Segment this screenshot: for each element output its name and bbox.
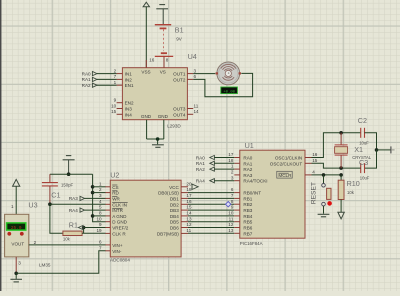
svg-text:8: 8 (99, 211, 102, 216)
wire RA3 to WR (85, 197, 106, 199)
junction MCLR-R10 (339, 173, 343, 177)
svg-text:17: 17 (186, 193, 192, 198)
svg-text:RA4: RA4 (69, 208, 78, 213)
svg-text:OUT4: OUT4 (173, 112, 186, 117)
U4 right pins OUT1-OUT4 (173, 68, 199, 117)
svg-text:5: 5 (99, 205, 102, 210)
node RA2 (terminal at U4 EN1) (82, 83, 97, 88)
svg-text:U3: U3 (28, 201, 37, 210)
svg-text:ADC0804: ADC0804 (110, 258, 130, 263)
svg-text:R10: R10 (347, 179, 360, 188)
svg-text:3: 3 (231, 175, 234, 180)
svg-text:L293D: L293D (167, 124, 181, 129)
U2 right pins VCC DB0-DB7 (157, 181, 192, 236)
svg-text:RA1: RA1 (196, 161, 205, 166)
svg-text:DB3: DB3 (170, 208, 179, 213)
svg-text:1: 1 (99, 181, 102, 186)
wire terminal rail down to C3 (365, 150, 377, 168)
svg-text:16: 16 (149, 57, 155, 62)
svg-text:10: 10 (111, 103, 117, 108)
wire button to ground (323, 206, 325, 214)
svg-text:9V: 9V (176, 37, 183, 42)
svg-text:RA2: RA2 (243, 167, 252, 172)
svg-text:11: 11 (186, 228, 191, 233)
junction crystal top (339, 131, 343, 135)
wire R1 right to U2 CLK R (82, 232, 106, 234)
svg-text:6: 6 (231, 187, 234, 192)
svg-text:PIC16F84A: PIC16F84A (240, 241, 263, 246)
svg-text:VSS: VSS (141, 70, 150, 75)
svg-text:10: 10 (96, 216, 102, 221)
svg-text:12: 12 (186, 222, 192, 227)
battery B1 (155, 25, 173, 57)
U1 left pins RA0-RA4 RB0-RB7 (228, 152, 267, 236)
svg-text:4: 4 (99, 199, 102, 204)
wires DB0-DB7 to RB0-RB7 (188, 193, 234, 234)
svg-text:7: 7 (99, 245, 102, 250)
svg-text:VIN+: VIN+ (112, 243, 123, 248)
svg-text:RA3: RA3 (69, 196, 78, 201)
node RA0 (terminal at U1) (196, 155, 215, 160)
wire gnd rail to U2 VIN- (16, 251, 105, 273)
U2 left pins (96, 181, 128, 253)
svg-text:IN2: IN2 (125, 77, 133, 82)
power terminal (up arrow, LM35 pin1) (13, 179, 20, 186)
svg-text:RA1: RA1 (243, 161, 252, 166)
svg-text:9: 9 (231, 205, 234, 210)
svg-text:13: 13 (186, 216, 192, 221)
svg-text:RB6: RB6 (243, 226, 252, 231)
svg-text:14: 14 (194, 109, 200, 114)
svg-text:12: 12 (228, 222, 234, 227)
svg-text:25.0: 25.0 (11, 226, 22, 231)
svg-text:+0.00: +0.00 (223, 90, 235, 94)
svg-text:U1: U1 (245, 141, 254, 150)
wire MCLR to button (323, 175, 325, 184)
svg-text:RA3: RA3 (243, 173, 252, 178)
svg-text:EN2: EN2 (125, 101, 134, 106)
svg-text:3: 3 (99, 193, 102, 198)
svg-text:1: 1 (231, 164, 234, 169)
node RA3 (terminal at U2 WR) (69, 196, 85, 201)
wire CLK IN node down to R1 (50, 204, 63, 233)
wire RA1 to U1 (214, 162, 234, 164)
wire U4 GND pins to ground (147, 120, 164, 145)
wire C2 right to terminal rail (365, 133, 377, 150)
wire LM35 VOUT to U2 VIN+ (29, 244, 106, 246)
svg-text:20: 20 (186, 181, 192, 186)
wire VREF node to U2 pin 9 (84, 227, 106, 229)
svg-text:DB6: DB6 (170, 226, 179, 231)
wire C1 bottom to CLK IN node (49, 186, 51, 204)
svg-text:VCC: VCC (169, 185, 179, 190)
svg-text:11: 11 (229, 216, 234, 221)
wire OSC1 to crystal top rail (312, 133, 361, 158)
svg-text:LM35: LM35 (39, 263, 51, 268)
junction AGND (91, 214, 95, 218)
svg-text:CLK R: CLK R (112, 231, 126, 236)
wire ground to B1 + (162, 9, 164, 25)
wire B1 - to U4 pin 8 VS (163, 56, 165, 67)
IC U1 PIC16F84A (240, 150, 305, 238)
wire RA0 to U1 (214, 157, 234, 159)
svg-text:RB7: RB7 (243, 231, 252, 236)
wire gnd rail horizontal (50, 173, 93, 175)
terminal arrow VCC (U2 pin 20) (192, 184, 198, 189)
svg-text:RA4: RA4 (196, 179, 205, 184)
svg-text:RA0: RA0 (243, 156, 252, 161)
svg-text:9: 9 (99, 222, 102, 227)
svg-text:19: 19 (96, 228, 102, 233)
resistor R1 (63, 231, 82, 235)
svg-text:IN1: IN1 (125, 72, 133, 77)
ground (above battery B1) (156, 5, 168, 9)
svg-text:CS: CS (112, 185, 118, 190)
svg-text:RA2: RA2 (196, 167, 205, 172)
svg-text:14: 14 (186, 211, 192, 216)
svg-text:DB4: DB4 (170, 214, 179, 219)
svg-text:RA0: RA0 (196, 155, 205, 160)
svg-text:RA2: RA2 (82, 83, 91, 88)
junction LM35 gnd (14, 272, 18, 276)
svg-text:RD: RD (112, 191, 119, 196)
U4 left pins IN1 IN2 EN1 EN2 IN3 IN4 (111, 68, 134, 117)
svg-text:DB0(LSB): DB0(LSB) (158, 191, 179, 196)
wire C1 top stub (49, 174, 51, 182)
LM35 temperature display (7, 223, 26, 231)
svg-text:U2: U2 (110, 170, 119, 179)
wire ground drop (68, 160, 70, 174)
svg-text:17: 17 (228, 152, 234, 157)
junction CLK IN node (48, 202, 52, 206)
IC U4 L293D (122, 68, 187, 120)
svg-text:B1: B1 (175, 26, 184, 35)
wire R10 to power (340, 200, 342, 213)
wire RA2 to U1 (214, 168, 234, 170)
svg-text:X1: X1 (354, 145, 363, 154)
svg-text:RB4: RB4 (243, 214, 252, 219)
node RA1 (terminal at U4 IN2) (82, 77, 97, 82)
capacitor C3 (361, 163, 365, 173)
svg-text:9: 9 (114, 98, 117, 103)
wire power to U4 pin 16 VSS (145, 7, 147, 68)
wire to A GND pin (93, 215, 106, 217)
svg-text:DB5: DB5 (170, 220, 179, 225)
svg-text:DB2: DB2 (170, 202, 179, 207)
node RA4 (terminal at U1) (196, 179, 215, 184)
svg-text:18: 18 (186, 187, 192, 192)
U1 right pins OSC1 OSC2 MCLR (270, 152, 318, 178)
crystal X1 (335, 133, 348, 168)
svg-text:EN1: EN1 (125, 83, 134, 88)
wire CLK IN node to U2 pin 4 (50, 203, 106, 205)
svg-text:7: 7 (114, 74, 117, 79)
svg-text:IN4: IN4 (125, 112, 133, 117)
svg-text:RA4/TOCKI: RA4/TOCKI (243, 179, 267, 184)
svg-text:VREF/2: VREF/2 (112, 226, 129, 231)
svg-text:C2: C2 (358, 116, 367, 125)
wire power to LM35 pin 1 (15, 186, 17, 214)
svg-text:OUT1: OUT1 (173, 72, 186, 77)
wire ground vertical to CS/RD/AGND/DGND (93, 174, 106, 222)
svg-text:2: 2 (34, 240, 37, 245)
resistor R10 (338, 175, 344, 200)
svg-text:DB7(MSB): DB7(MSB) (157, 231, 179, 236)
motor rpm display (221, 87, 238, 94)
svg-text:OUT3: OUT3 (173, 107, 186, 112)
wire RA4 to INTR (85, 209, 106, 211)
wire R1 to VREF node (83, 228, 85, 234)
svg-text:OUT2: OUT2 (173, 77, 186, 82)
svg-text:IN3: IN3 (125, 107, 133, 112)
svg-text:D GND: D GND (112, 220, 127, 225)
wire MCLR row (312, 174, 342, 176)
button RESET (push switch) (322, 184, 332, 206)
IC U2 ADC0804 (110, 180, 181, 257)
LM35 adjust buttons (7, 232, 11, 236)
svg-text:OSC2/CLKOUT: OSC2/CLKOUT (270, 161, 303, 166)
svg-text:6: 6 (194, 74, 197, 79)
svg-text:OSC1/CLKIN: OSC1/CLKIN (275, 156, 302, 161)
wire C3 left to OSC2 (312, 163, 361, 168)
svg-text:3: 3 (194, 68, 197, 73)
svg-text:WR: WR (112, 196, 120, 201)
junction VREF node (82, 226, 86, 230)
svg-text:15: 15 (111, 109, 117, 114)
junction U4 gnd (156, 137, 160, 141)
power terminal (down arrow, below R10) (338, 212, 344, 219)
ground (above C1 / ADC) (63, 156, 75, 160)
wire LM35 pin3 down (15, 257, 17, 273)
svg-text:15: 15 (312, 158, 318, 163)
svg-text:11: 11 (194, 103, 199, 108)
node RA2 (terminal at U1) (196, 167, 215, 172)
svg-text:VS: VS (160, 70, 166, 75)
svg-text:RA1: RA1 (82, 77, 91, 82)
sensor U3 LM35 (5, 214, 29, 257)
svg-text:1: 1 (11, 204, 14, 209)
power terminal (up arrow, U4 VSS) (143, 2, 149, 7)
svg-text:R1: R1 (69, 221, 78, 230)
svg-text:3: 3 (18, 260, 21, 265)
svg-text:2: 2 (231, 170, 234, 175)
svg-text:4: 4 (312, 170, 315, 175)
svg-text:CLK IN: CLK IN (112, 202, 127, 207)
svg-text:RESET: RESET (311, 182, 318, 204)
junction RD (91, 191, 95, 195)
node RA0 (terminal at U4 IN1) (82, 71, 97, 76)
svg-text:U4: U4 (188, 52, 197, 61)
default terminal (391, 146, 395, 153)
junction terminal rail (375, 148, 379, 152)
ground (below button) (318, 214, 330, 217)
svg-text:RB0/INT: RB0/INT (243, 191, 261, 196)
junction MCLR-button (322, 173, 326, 177)
svg-text:8: 8 (231, 199, 234, 204)
svg-text:7: 7 (231, 193, 234, 198)
wire OUT1 to motor left (193, 73, 215, 75)
capacitor C2 (361, 128, 365, 138)
svg-text:1: 1 (114, 80, 117, 85)
wire RA4 to U1 (214, 180, 234, 182)
svg-text:10k: 10k (347, 190, 355, 195)
wire OUT2 to motor right (loop) (193, 73, 252, 96)
junction crystal bottom (339, 166, 343, 170)
motor (DC motor with RPM display) (216, 62, 241, 85)
svg-text:C1: C1 (51, 191, 60, 200)
wire RA2 to EN1 (97, 84, 117, 86)
wire RA0 to IN1 (97, 73, 117, 75)
U4 top pin stubs (145, 60, 147, 68)
svg-text:2: 2 (114, 68, 117, 73)
svg-text:16: 16 (186, 199, 192, 204)
wire RA1 to IN2 (97, 78, 117, 80)
svg-text:10k: 10k (63, 237, 71, 242)
node RA1 (terminal at U1) (196, 161, 215, 166)
svg-text:VOUT: VOUT (11, 241, 24, 246)
svg-text:GND: GND (141, 114, 152, 119)
svg-text:RB3: RB3 (243, 208, 252, 213)
junction CS (91, 185, 95, 189)
svg-text:150pF: 150pF (61, 183, 74, 188)
svg-text:RB2: RB2 (243, 202, 252, 207)
svg-text:10: 10 (228, 211, 234, 216)
terminal arrow (VREF/2) (78, 225, 83, 229)
svg-text:VIN-: VIN- (112, 249, 122, 254)
svg-text:RB1: RB1 (243, 196, 252, 201)
svg-text:RB5: RB5 (243, 220, 252, 225)
svg-text:MCLR: MCLR (278, 173, 292, 178)
svg-text:CRYSTAL: CRYSTAL (352, 155, 372, 160)
probe marker (blue diamond at RB2) (226, 202, 231, 207)
svg-text:2: 2 (99, 187, 102, 192)
wire to default terminal (377, 149, 391, 151)
node RA4 (terminal at U2 INTR) (69, 208, 85, 213)
svg-text:18: 18 (228, 158, 234, 163)
ground (below LM35) (10, 279, 22, 282)
wire to CS pin (93, 186, 106, 188)
svg-text:15: 15 (186, 205, 192, 210)
svg-text:8: 8 (166, 57, 169, 62)
svg-text:6: 6 (99, 240, 102, 245)
svg-text:RA0: RA0 (82, 71, 91, 76)
svg-text:13: 13 (228, 228, 234, 233)
svg-text:INTR: INTR (112, 208, 123, 213)
wire LM35 pin3 to ground (15, 273, 17, 279)
svg-text:A GND: A GND (112, 214, 127, 219)
svg-text:10uF: 10uF (360, 176, 370, 181)
wire to RD pin (93, 192, 106, 194)
svg-text:GND: GND (158, 114, 169, 119)
svg-text:16: 16 (312, 152, 318, 157)
capacitor C1 150pF (42, 183, 58, 186)
junction gnd rail (67, 172, 71, 176)
svg-text:DB1: DB1 (170, 196, 179, 201)
ground (below U4) (152, 145, 164, 148)
